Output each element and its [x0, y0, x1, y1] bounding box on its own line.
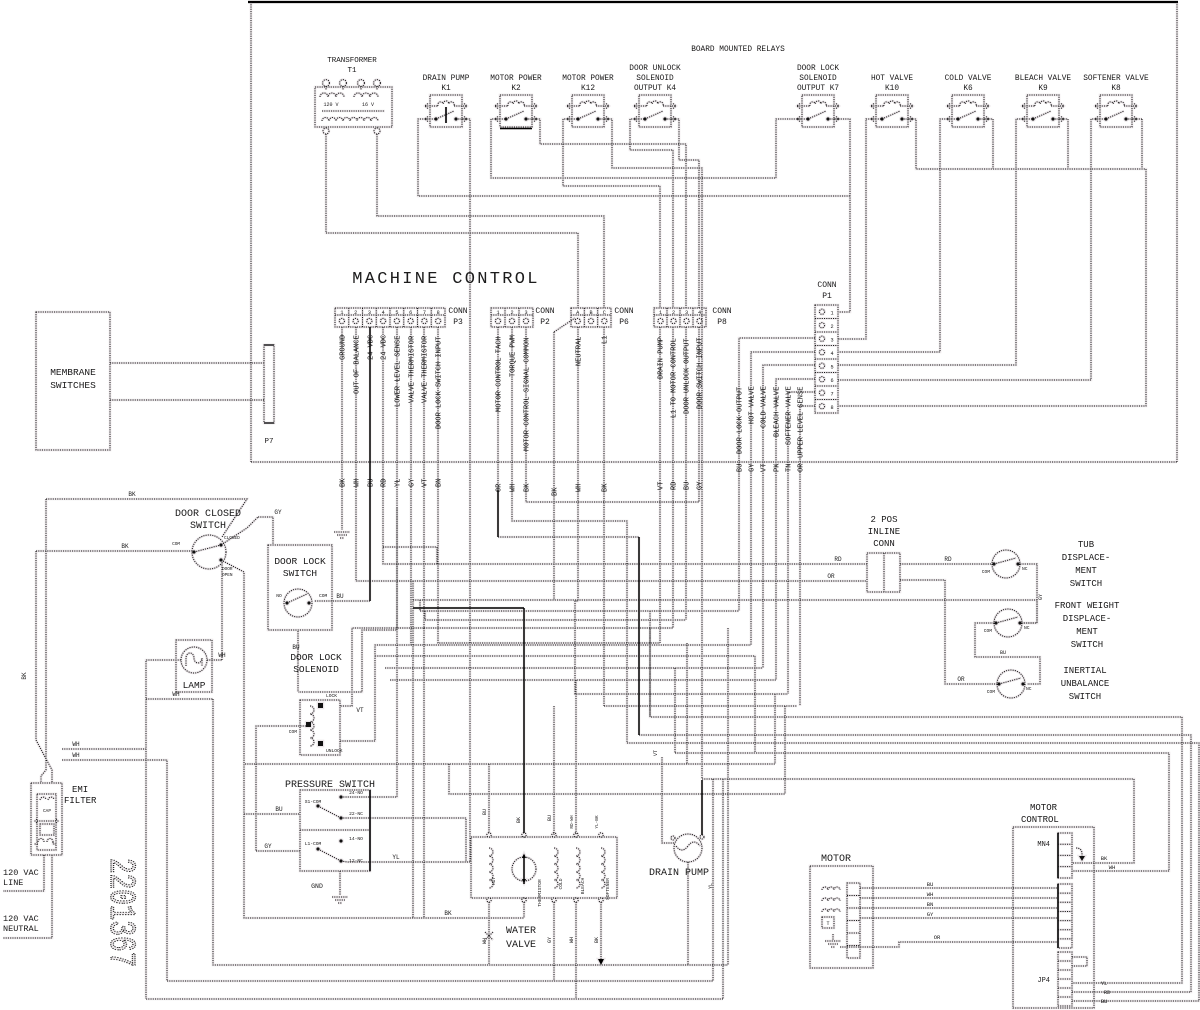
wire column 424: [423, 628, 425, 918]
svg-text:GY: GY: [697, 481, 705, 490]
relay K9: [1015, 75, 1071, 127]
wire into EMI top right: [36, 551, 52, 783]
2 pos inline conn: [867, 515, 900, 592]
svg-text:MOTOR: MOTOR: [821, 854, 851, 865]
svg-text:BOARD MOUNTED RELAYS: BOARD MOUNTED RELAYS: [691, 46, 785, 54]
svg-text:3: 3: [524, 310, 527, 316]
svg-text:WH: WH: [569, 937, 575, 943]
svg-text:P2: P2: [540, 318, 550, 327]
svg-text:GND: GND: [311, 883, 323, 890]
svg-text:GY: GY: [927, 911, 934, 918]
svg-text:24 VDC: 24 VDC: [381, 335, 389, 360]
svg-text:COLD VALVE: COLD VALVE: [945, 75, 992, 83]
ground motor: [825, 941, 841, 947]
svg-text:WH: WH: [172, 691, 180, 698]
wire transformer to P6 pin3 L1: [377, 134, 604, 308]
wire P2 pin1 drop: [497, 327, 499, 490]
wire valve relay outputs common bus to P1 pin8: [838, 119, 1146, 406]
wire column 713: [712, 779, 714, 981]
wire run y779 BK drain pump to MN4: [702, 779, 1134, 863]
svg-text:L1 TO MOTOR CONTROL: L1 TO MOTOR CONTROL: [671, 338, 679, 418]
svg-text:NC: NC: [1024, 625, 1030, 631]
svg-text:BK: BK: [524, 483, 532, 492]
svg-text:K12: K12: [581, 85, 595, 93]
drain pump: [649, 834, 709, 879]
svg-text:COM: COM: [319, 593, 328, 599]
wire BK bus to door closed COM: [36, 550, 192, 552]
connector P7 strip: [264, 345, 274, 446]
connector P1: [815, 281, 838, 413]
svg-text:4: 4: [698, 310, 701, 316]
svg-text:FRONT WEIGHT: FRONT WEIGHT: [1055, 601, 1120, 611]
svg-text:YL: YL: [395, 479, 403, 487]
svg-text:2: 2: [830, 324, 833, 330]
svg-text:SOFTENER VALVE: SOFTENER VALVE: [786, 386, 794, 445]
wire RD long run solid column to JP4: [639, 735, 1191, 992]
svg-text:B: B: [589, 310, 592, 316]
svg-text:WH: WH: [1109, 864, 1116, 871]
wire P2 pin3 drop: [526, 327, 699, 502]
wire K1 left contact / K7 right contact to P1 pin1: [418, 119, 850, 196]
wire run y668: [385, 667, 763, 669]
relay K4: [629, 65, 681, 127]
svg-text:LINE: LINE: [3, 878, 23, 888]
svg-text:NEUTRAL: NEUTRAL: [576, 337, 584, 366]
svg-text:MENT: MENT: [1076, 627, 1098, 637]
svg-text:MENT: MENT: [1075, 566, 1097, 576]
svg-text:DOOR UNLOCK OUTPUT: DOOR UNLOCK OUTPUT: [684, 338, 692, 414]
svg-text:INERTIAL: INERTIAL: [1063, 666, 1106, 676]
door lock switch: [268, 545, 332, 630]
wire transformer to P6 pin1 NEUTRAL: [326, 134, 578, 308]
wire P1 column DOOR LOCK OUTPUT: [739, 338, 815, 611]
svg-text:NC: NC: [1026, 686, 1032, 692]
svg-text:DISPLACE-: DISPLACE-: [1063, 614, 1112, 624]
svg-text:16 V: 16 V: [362, 102, 374, 108]
wire P1 column BLEACH VALVE: [776, 379, 815, 680]
svg-text:BU: BU: [737, 464, 745, 472]
svg-text:2 POS: 2 POS: [870, 515, 897, 525]
connector P3: [335, 307, 468, 327]
wire P8 pin4 drop: [698, 327, 700, 502]
svg-text:RD: RD: [671, 482, 679, 490]
svg-text:BK: BK: [594, 937, 600, 943]
wire P3 pin6 staircase to door lock solenoid UNLOCK: [340, 327, 411, 741]
svg-text:WH: WH: [482, 938, 488, 944]
svg-text:T: T: [826, 921, 829, 927]
door closed switch: [172, 509, 241, 578]
motor: [810, 854, 873, 968]
wire K12 right contact to drain pump column: [604, 119, 702, 779]
svg-text:OR: OR: [827, 573, 835, 580]
svg-text:BU: BU: [292, 644, 300, 651]
bus bottom 2: [167, 980, 713, 982]
wire riser 785: [784, 706, 786, 794]
svg-text:K10: K10: [885, 85, 899, 93]
svg-text:120 V: 120 V: [323, 102, 338, 108]
wire P6 pin1 drop jog y694 run: [575, 327, 788, 694]
EMI filter: [31, 783, 97, 855]
svg-text:7: 7: [830, 391, 833, 397]
svg-text:HOT: HOT: [491, 877, 497, 886]
svg-text:P6: P6: [619, 318, 629, 327]
svg-text:MOTOR POWER: MOTOR POWER: [562, 75, 614, 83]
door lock solenoid: [289, 652, 343, 755]
svg-text:HOT VALVE: HOT VALVE: [749, 386, 757, 424]
svg-text:MOTOR: MOTOR: [1030, 803, 1058, 813]
svg-text:MEMBRANE: MEMBRANE: [50, 367, 96, 378]
wire riser 687: [686, 643, 688, 764]
svg-text:24-NO: 24-NO: [349, 790, 363, 796]
svg-text:24 VDC: 24 VDC: [368, 335, 376, 360]
svg-text:120 VAC: 120 VAC: [3, 868, 39, 878]
svg-text:2: 2: [354, 310, 357, 316]
svg-text:6: 6: [409, 310, 412, 316]
svg-text:BK: BK: [128, 491, 136, 498]
wire K9 left contact to P1 pin4: [838, 119, 1027, 365]
svg-text:T1: T1: [347, 67, 357, 75]
wire K10 left contact to P1 pin2: [838, 119, 876, 339]
wire P3 pin2 to inline conn OR: [356, 327, 867, 581]
svg-text:TUB: TUB: [1078, 540, 1095, 550]
svg-text:K6: K6: [963, 85, 973, 93]
svg-text:TN: TN: [786, 464, 794, 472]
wire P3 pin4 to inline conn RD: [383, 327, 867, 564]
wire run y794: [449, 764, 785, 794]
svg-text:NC: NC: [1022, 566, 1028, 572]
wire drain pump right solid: [701, 780, 703, 835]
svg-text:DRAIN PUMP: DRAIN PUMP: [423, 75, 470, 83]
svg-text:COLD VALVE: COLD VALVE: [761, 386, 769, 428]
svg-text:GY: GY: [274, 509, 282, 516]
svg-text:COM: COM: [984, 628, 993, 634]
wire run y611: [420, 610, 739, 612]
svg-text:DOOR CLOSED: DOOR CLOSED: [175, 509, 241, 520]
wire BK to door closed switch top: [46, 499, 247, 537]
connector JP4: [1037, 952, 1072, 1006]
svg-text:DOOR LOCK SWITCH INPUT: DOOR LOCK SWITCH INPUT: [436, 337, 444, 429]
svg-text:LAMP: LAMP: [183, 680, 206, 691]
svg-text:DOOR: DOOR: [222, 567, 233, 572]
svg-text:VALVE THERMISTOR: VALVE THERMISTOR: [409, 335, 417, 403]
svg-text:SWITCH: SWITCH: [1071, 640, 1103, 650]
svg-text:BK: BK: [602, 483, 610, 492]
svg-text:DRAIN PUMP: DRAIN PUMP: [649, 868, 709, 879]
wire into EMI top left: [41, 499, 46, 783]
svg-text:UPPER LEVEL SENSE: UPPER LEVEL SENSE: [798, 387, 806, 458]
wire P3 pin5 to door lock switch NO: [298, 327, 397, 692]
svg-text:BU: BU: [336, 593, 344, 600]
svg-text:RD: RD: [381, 479, 389, 487]
wire pressure switch 24-NO riser: [341, 508, 397, 797]
wire P1 column COLD VALVE: [763, 365, 815, 668]
svg-text:VT: VT: [653, 750, 659, 756]
svg-text:SOFTENER VALVE: SOFTENER VALVE: [1083, 75, 1149, 83]
svg-text:COLD: COLD: [558, 878, 564, 889]
svg-text:3: 3: [685, 310, 688, 316]
svg-text:TORQUE PWM: TORQUE PWM: [510, 335, 518, 377]
svg-text:UNBALANCE: UNBALANCE: [1061, 679, 1110, 689]
svg-text:MACHINE CONTROL: MACHINE CONTROL: [352, 270, 540, 289]
wire door closed contact down to thermistor return: [221, 560, 524, 918]
wire K2 right contact to P8 pin3: [532, 119, 686, 308]
svg-text:SWITCH: SWITCH: [1070, 579, 1102, 589]
svg-text:YL: YL: [1101, 980, 1108, 987]
svg-text:BU: BU: [275, 806, 283, 813]
svg-text:22-NC: 22-NC: [349, 811, 363, 817]
wire door closed lower contact to lamp: [221, 560, 223, 660]
svg-text:120 VAC: 120 VAC: [3, 914, 39, 924]
svg-text:8: 8: [437, 310, 440, 316]
wire GY into pressure switch: [256, 850, 300, 852]
svg-text:SOFTENER: SOFTENER: [605, 878, 611, 900]
relay K8: [1083, 75, 1149, 127]
svg-text:1: 1: [830, 310, 833, 316]
wire column 723: [722, 779, 724, 999]
bus bottom 3: [146, 998, 723, 1000]
wire K1 right contact down to pressure switch YL: [462, 119, 470, 862]
svg-text:COM: COM: [289, 729, 298, 735]
wire P1 column SOFTENER VALVE: [788, 392, 815, 694]
svg-text:GROUND: GROUND: [340, 335, 348, 360]
svg-text:HOT VALVE: HOT VALVE: [871, 75, 913, 83]
svg-text:DOOR LOCK OUTPUT: DOOR LOCK OUTPUT: [737, 387, 745, 454]
wire run y517 GY door closed to door lock box: [258, 517, 273, 545]
svg-text:CONN: CONN: [448, 307, 467, 316]
svg-text:GY: GY: [264, 843, 272, 850]
wire thermistor solid up: [523, 608, 525, 833]
svg-text:OR: OR: [798, 463, 806, 472]
svg-text:DOOR LOCK: DOOR LOCK: [290, 652, 342, 663]
relay K2: [490, 75, 542, 129]
svg-text:3: 3: [830, 337, 833, 343]
wire run y656: [375, 656, 755, 753]
svg-text:LOWER LEVEL SENSE: LOWER LEVEL SENSE: [395, 336, 403, 407]
svg-text:5: 5: [830, 364, 833, 370]
svg-text:K9: K9: [1038, 85, 1048, 93]
wire K2 left contact to K7 left contact: [491, 119, 802, 178]
wire run y706: [604, 705, 797, 707]
svg-text:VT: VT: [356, 707, 364, 714]
svg-text:NEUTRAL: NEUTRAL: [3, 924, 39, 934]
svg-text:SOLENOID: SOLENOID: [636, 75, 674, 83]
svg-text:YL: YL: [708, 883, 714, 889]
water valve box: [471, 833, 617, 907]
svg-text:NO: NO: [276, 593, 282, 599]
svg-text:BU: BU: [368, 479, 376, 487]
svg-text:DRAIN PUMP: DRAIN PUMP: [658, 337, 666, 379]
relay K10: [871, 75, 913, 127]
wire P8 pin1 drop: [659, 327, 661, 643]
svg-text:RD: RD: [1104, 989, 1111, 996]
svg-text:14-NO: 14-NO: [349, 836, 363, 842]
svg-text:S1-COM: S1-COM: [305, 799, 322, 805]
wire membrane to P7 lower: [110, 399, 264, 401]
svg-text:BK: BK: [444, 910, 452, 917]
svg-text:WH: WH: [218, 652, 226, 659]
svg-text:BLEACH VALVE: BLEACH VALVE: [774, 387, 782, 437]
svg-text:BN: BN: [436, 479, 444, 487]
thermistor: [512, 857, 536, 881]
svg-text:P1: P1: [822, 292, 832, 301]
svg-text:P3: P3: [453, 318, 463, 327]
svg-text:CONN: CONN: [614, 307, 633, 316]
wire P1 column UPPER LEVEL SENSE: [800, 406, 815, 706]
wire staircase step left ends: [412, 581, 414, 918]
svg-text:BU: BU: [1101, 998, 1108, 1005]
svg-text:RD: RD: [834, 556, 842, 563]
svg-text:WH: WH: [354, 479, 362, 487]
svg-text:BU: BU: [1000, 650, 1006, 656]
motor connector strip: [847, 883, 860, 958]
wire run y764: [245, 763, 775, 765]
lamp: [176, 640, 212, 692]
svg-text:OR: OR: [496, 483, 504, 492]
svg-text:OR: OR: [934, 934, 941, 941]
wire tub NC down to front weight NC: [1018, 564, 1037, 623]
svg-text:SWITCH: SWITCH: [190, 521, 226, 532]
wire K4 left contact to P8 pin2: [630, 119, 673, 308]
svg-text:2: 2: [510, 310, 513, 316]
wire OR inline conn to inertial COM: [900, 580, 997, 684]
svg-text:YL-BK: YL-BK: [595, 815, 600, 829]
wire run y717 YL to JP4: [650, 628, 1182, 983]
wire P8 pin2 drop: [672, 327, 674, 628]
svg-text:DISPLACE-: DISPLACE-: [1062, 553, 1111, 563]
svg-text:VT: VT: [761, 464, 769, 472]
svg-text:12-NC: 12-NC: [349, 858, 363, 864]
svg-text:K2: K2: [511, 85, 521, 93]
svg-text:VT: VT: [422, 479, 430, 487]
svg-text:4: 4: [382, 310, 385, 316]
svg-text:MOTOR CONTROL SIGNAL COMMON: MOTOR CONTROL SIGNAL COMMON: [524, 338, 532, 451]
svg-text:1: 1: [659, 310, 662, 316]
wire door lock solenoid COM: [256, 726, 306, 851]
svg-text:MOTOR CONTROL TACH: MOTOR CONTROL TACH: [496, 336, 504, 412]
motor control box: [1013, 803, 1094, 1008]
svg-text:GY: GY: [547, 937, 553, 943]
wire riser 728: [727, 628, 729, 965]
svg-text:JP4: JP4: [1037, 977, 1050, 985]
wire front weight COM to inertial NC: [975, 623, 1040, 684]
pressure switch ground: [339, 871, 341, 895]
wire lamp right: [207, 659, 222, 661]
wire run y600 GY to front weight switch: [413, 600, 1037, 623]
svg-text:BK: BK: [340, 478, 348, 487]
ground P3 pin1: [334, 532, 350, 538]
svg-text:WH: WH: [72, 741, 80, 748]
svg-text:OR: OR: [957, 676, 965, 683]
ground pressure switch: [332, 897, 348, 903]
svg-text:P7: P7: [264, 438, 273, 446]
bus bottom 1: [213, 699, 728, 965]
membrane switches box: [36, 312, 110, 450]
wire EMI to 120VAC LINE: [3, 855, 44, 891]
water valve bottom wires: [488, 902, 490, 965]
motor wires to motor control: [860, 887, 1058, 889]
svg-text:GY: GY: [1038, 594, 1044, 600]
svg-text:BU: BU: [482, 809, 488, 815]
svg-text:DOOR LOCK: DOOR LOCK: [274, 556, 326, 567]
connector motor control middle: [1058, 884, 1072, 948]
svg-text:C: C: [603, 310, 606, 316]
svg-text:DOOR LOCK: DOOR LOCK: [797, 65, 839, 73]
svg-text:THERMISTOR: THERMISTOR: [537, 879, 543, 907]
svg-text:3: 3: [368, 310, 371, 316]
pressure switch: [285, 780, 375, 871]
svg-text:2201367: 2201367: [100, 858, 140, 967]
svg-text:4: 4: [830, 351, 833, 357]
wire WH lamp column to bus1 riser: [146, 698, 213, 700]
svg-text:MN4: MN4: [1037, 841, 1050, 849]
wire K4 right contact to P8 pin4: [671, 119, 699, 308]
svg-text:8: 8: [830, 405, 833, 411]
svg-text:TRANSFORMER: TRANSFORMER: [327, 57, 377, 65]
svg-text:BK: BK: [121, 543, 129, 550]
svg-text:BU: BU: [547, 815, 553, 821]
wire P1 column HOT VALVE: [751, 352, 815, 645]
wire P8 pin3 drop: [685, 327, 687, 620]
wire solid link to thermistor: [413, 607, 524, 609]
svg-text:WH: WH: [510, 484, 518, 492]
wire drain pump left VT: [662, 757, 674, 843]
svg-text:OPEN: OPEN: [222, 573, 233, 578]
svg-text:CONN: CONN: [817, 281, 836, 290]
svg-text:OUTPUT K4: OUTPUT K4: [634, 85, 676, 93]
wire run y645 to HOT VALVE column: [411, 644, 751, 646]
svg-text:BU: BU: [684, 482, 692, 490]
svg-text:UNLOCK: UNLOCK: [326, 748, 343, 754]
svg-text:EMI: EMI: [72, 785, 88, 795]
connector P2: [491, 307, 555, 327]
svg-text:CONN: CONN: [535, 307, 554, 316]
wire to solid drop 639: [498, 536, 639, 538]
relay K1: [423, 75, 470, 127]
svg-text:K8: K8: [1111, 85, 1121, 93]
wire riser 650: [649, 611, 651, 717]
svg-text:1: 1: [496, 310, 499, 316]
svg-text:OUT OF BALANCE: OUT OF BALANCE: [354, 335, 362, 394]
wire run y680: [390, 679, 776, 681]
front weight displacement switch: [984, 609, 1030, 637]
svg-text:VALVE THERMISTOR: VALVE THERMISTOR: [422, 335, 430, 403]
svg-text:WH: WH: [576, 484, 584, 492]
wire hot valve top: [488, 764, 490, 833]
svg-text:GY: GY: [409, 478, 417, 487]
svg-text:MOTOR POWER: MOTOR POWER: [490, 75, 542, 83]
inertial unbalance switch: [987, 670, 1032, 698]
svg-text:K1: K1: [441, 85, 451, 93]
motor ground: [832, 934, 834, 940]
wire BU into pressure switch: [244, 813, 300, 815]
wire K12 left contact to P8 pin1: [563, 119, 660, 308]
transformer T1: [315, 57, 392, 134]
svg-text:CONN: CONN: [873, 539, 895, 549]
tub displacement switch: [982, 550, 1028, 578]
svg-text:CONTROL: CONTROL: [1021, 815, 1059, 825]
svg-text:LOCK: LOCK: [326, 693, 337, 699]
wire run y753 WH to MN4: [675, 753, 1169, 871]
svg-text:1: 1: [340, 310, 343, 316]
wire P6 pin3 drop: [603, 327, 605, 706]
svg-text:SOLENOID: SOLENOID: [799, 75, 837, 83]
svg-text:DOOR UNLOCK: DOOR UNLOCK: [629, 65, 681, 73]
svg-text:L1-COM: L1-COM: [305, 841, 322, 847]
relay K12: [562, 75, 614, 127]
wire K8 left contact to P1 pin5: [838, 119, 1100, 380]
svg-text:SOLENOID: SOLENOID: [293, 664, 339, 675]
wire inline conn to tub displacement switch: [900, 563, 992, 565]
